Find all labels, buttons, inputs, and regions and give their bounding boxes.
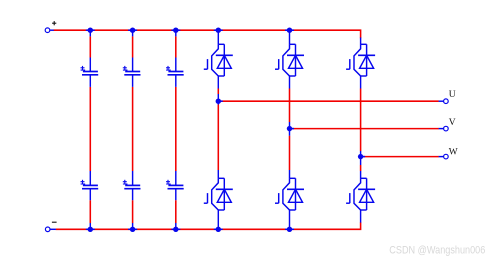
svg-text:V: V [449,118,456,128]
svg-text:W: W [449,147,458,157]
svg-text:U: U [449,90,456,100]
svg-text:CSDN @Wangshun006: CSDN @Wangshun006 [389,245,485,257]
